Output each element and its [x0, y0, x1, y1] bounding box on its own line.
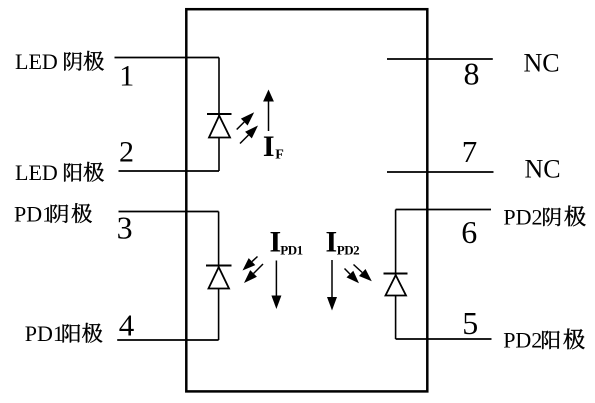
wire: pin 3 lead (PD1 cathode)	[119, 211, 219, 213]
svg-text:PD2: PD2	[503, 205, 542, 230]
IF current arrow (up)	[263, 90, 274, 132]
label: LED cathode (pin 1)	[15, 49, 104, 74]
svg-text:6: 6	[461, 214, 477, 250]
svg-text:PD1: PD1	[14, 201, 53, 226]
wire: pin 8 lead (NC)	[387, 58, 493, 60]
svg-text:I: I	[263, 130, 275, 163]
wire: pin 1 lead (LED cathode)	[115, 57, 220, 59]
PD2 incident light arrow 2	[354, 265, 372, 282]
pin number 1	[119, 59, 134, 92]
photodiode PD1	[206, 266, 232, 289]
pin number 4	[119, 308, 135, 343]
LED D1 (emitter diode)	[207, 114, 232, 138]
label IPD2	[326, 226, 360, 259]
svg-text:7: 7	[462, 134, 478, 169]
label IF	[263, 130, 284, 163]
wire: LED branch vertical (pin1 to pin2)	[218, 58, 220, 172]
wire: PD2 branch vertical (pin6 to pin5)	[395, 210, 397, 340]
wire: pin 2 lead (LED anode)	[119, 170, 220, 172]
svg-text:NC: NC	[525, 155, 561, 184]
pin number 5	[462, 305, 478, 341]
svg-text:1: 1	[119, 59, 134, 92]
svg-text:LED: LED	[15, 49, 58, 74]
pin number 8	[464, 56, 480, 92]
svg-text:PD2: PD2	[503, 328, 542, 353]
svg-text:NC: NC	[524, 49, 560, 78]
svg-text:2: 2	[119, 135, 134, 168]
wire: PD1 branch vertical (pin3 to pin4)	[218, 212, 220, 341]
wire: pin 7 lead (NC)	[387, 171, 494, 173]
svg-text:5: 5	[462, 305, 478, 341]
PD1 incident light arrow 2	[244, 264, 263, 283]
wire: pin 4 lead (PD1 anode)	[117, 339, 218, 341]
pin number 2	[119, 135, 134, 168]
label: PD2 anode (pin 5)	[503, 328, 584, 353]
label: NC (pin 7)	[525, 155, 561, 184]
svg-text:4: 4	[119, 308, 135, 343]
svg-text:I: I	[326, 226, 338, 259]
IPD2 current arrow (down)	[327, 260, 337, 311]
package outline U1	[186, 9, 427, 391]
label: PD1 cathode (pin 3)	[14, 201, 92, 226]
pin number 7	[462, 134, 478, 169]
svg-text:LED: LED	[15, 160, 58, 185]
pin number 6	[461, 214, 477, 250]
PD2 incident light arrow 1	[345, 269, 360, 284]
LED emission arrow 1	[237, 112, 255, 129]
svg-text:PD2: PD2	[337, 243, 359, 258]
IPD1 current arrow (down)	[271, 261, 281, 310]
label: PD2 cathode (pin 6)	[503, 205, 585, 230]
svg-text:PD1: PD1	[25, 321, 64, 346]
label IPD1	[270, 226, 303, 259]
label: NC (pin 8)	[524, 49, 560, 78]
wire: pin 5 lead (PD2 anode)	[396, 338, 492, 340]
label: PD1 anode (pin 4)	[25, 321, 103, 346]
svg-text:3: 3	[117, 209, 133, 245]
PD1 incident light arrow 1	[243, 257, 258, 271]
photodiode PD2	[384, 274, 408, 296]
wire: pin 6 lead (PD2 cathode)	[396, 209, 491, 211]
svg-text:8: 8	[464, 56, 480, 92]
pin number 3	[117, 209, 133, 245]
svg-text:F: F	[275, 148, 284, 163]
svg-text:PD1: PD1	[280, 243, 302, 258]
label: LED anode (pin 2)	[15, 160, 104, 185]
LED emission arrow 2	[240, 126, 258, 144]
